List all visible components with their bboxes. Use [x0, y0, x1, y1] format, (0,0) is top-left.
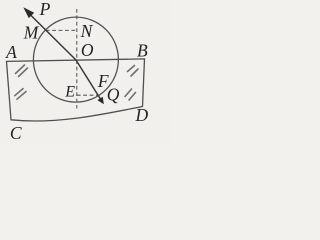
- ray OQ: [76, 60, 102, 102]
- dashed horizontal MN: [46, 29, 77, 31]
- svg-text:M: M: [23, 23, 40, 43]
- arrowhead at Q: [97, 97, 103, 105]
- svg-text:E: E: [64, 83, 75, 100]
- svg-text:O: O: [81, 40, 94, 60]
- hatching top-right: [128, 66, 139, 77]
- hatching bottom-right: [125, 89, 136, 100]
- dashed normal line through N and O: [76, 9, 78, 109]
- svg-text:D: D: [134, 105, 148, 125]
- hatching mid-left: [15, 89, 26, 100]
- hatching top-left: [16, 65, 28, 77]
- dashed horizontal EF: [77, 94, 98, 96]
- svg-text:P: P: [39, 0, 51, 19]
- circle centered at O: [33, 17, 118, 102]
- paper background: [0, 0, 172, 144]
- svg-text:C: C: [10, 123, 22, 143]
- ray OP: [26, 10, 77, 60]
- svg-text:Q: Q: [107, 85, 120, 105]
- glass slab ABDC outline: [7, 59, 145, 121]
- svg-text:A: A: [5, 42, 17, 62]
- svg-text:N: N: [80, 21, 94, 41]
- arrowhead at P: [23, 7, 34, 18]
- svg-text:B: B: [137, 40, 148, 60]
